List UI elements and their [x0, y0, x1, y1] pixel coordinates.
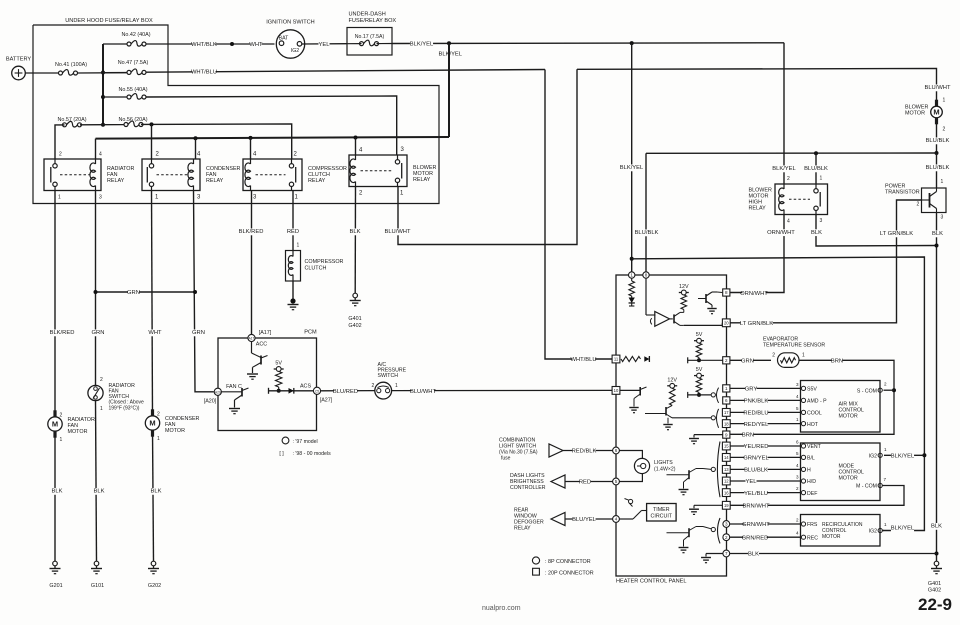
legend '97 model	[282, 437, 289, 444]
svg-text:BRN: BRN	[742, 433, 754, 439]
svg-text:COOL: COOL	[807, 411, 822, 417]
wire YEL/BLU pin16 to mode DEF	[730, 492, 800, 494]
svg-text:G401: G401	[348, 316, 361, 322]
svg-text:BLU/BLK: BLU/BLK	[744, 468, 768, 474]
wire WHT/BLU drop x=545 and into HCP pin11	[545, 70, 612, 360]
svg-text:UNDER-DASH: UNDER-DASH	[349, 12, 386, 18]
connector pin 4 (8P) BLU/YEL on HCP left	[613, 516, 620, 523]
wire radiator relay pin1 BLK/RED down to radiator fan motor	[54, 191, 56, 418]
wire condenser relay pin2 drop	[151, 124, 153, 159]
lamp LIGHTS (1.4Wx2) in HCP	[619, 451, 642, 459]
svg-text:3: 3	[725, 522, 728, 527]
label BLK/RED compressor	[239, 228, 262, 235]
connector pin 16 (20P) YEL/BLU	[722, 489, 730, 497]
svg-text:BLU/BLK: BLU/BLK	[926, 165, 950, 171]
connector pin 7 (8P) BLK to internal ground	[723, 550, 730, 557]
relay K4 BLOWER MOTOR RELAY	[349, 155, 407, 187]
svg-text:BLK: BLK	[151, 489, 162, 495]
wire radiator fan motor to ground G201 BLK	[54, 431, 56, 561]
svg-text:LT GRN/BLK: LT GRN/BLK	[880, 231, 913, 237]
svg-text:2: 2	[100, 377, 103, 383]
svg-text:4: 4	[615, 517, 618, 522]
motor M5 MODE CONTROL MOTOR box	[801, 443, 881, 501]
svg-text:2: 2	[60, 413, 63, 419]
connector C5 ACS output	[313, 387, 320, 394]
svg-text:CIRCUIT: CIRCUIT	[651, 514, 673, 520]
svg-text:nualpro.com: nualpro.com	[482, 605, 521, 612]
junction IG2 mode motor	[922, 453, 926, 457]
svg-text:RELAY: RELAY	[749, 206, 767, 212]
svg-text:BLU/WHT: BLU/WHT	[384, 229, 411, 235]
svg-text:2: 2	[796, 518, 799, 523]
svg-text:14: 14	[724, 455, 729, 460]
connector pin 2 (20P) GRN	[723, 357, 730, 364]
junction BLK/YEL rail to motors	[630, 257, 634, 261]
wire WHT/BLU pin11 resistor diode	[612, 355, 620, 363]
svg-text:G202: G202	[148, 583, 161, 589]
svg-text:BLU/WHT: BLU/WHT	[410, 389, 437, 395]
svg-text:MOTOR: MOTOR	[822, 534, 841, 540]
label YEL	[318, 41, 329, 48]
svg-text:BRN/WHT: BRN/WHT	[742, 504, 770, 510]
wire BLK pin7 to ground G401/G402	[730, 553, 937, 555]
svg-text:1: 1	[884, 447, 887, 452]
junction coil rail at condenser relay pin4	[194, 136, 198, 140]
wire to pin20 LT GRN/BLK	[684, 324, 723, 326]
wire GRN pin2sq to evaporator sensor	[730, 359, 771, 361]
svg-text:2: 2	[157, 412, 160, 418]
relay K2 CONDENSER FAN RELAY	[142, 159, 200, 191]
label GRN radiator	[92, 329, 103, 336]
splice dot on WHT/BLK wire	[230, 42, 234, 46]
svg-text:9: 9	[725, 432, 728, 437]
wire GRN/YEL pin14 to mode B/L	[730, 456, 800, 458]
svg-text:2: 2	[884, 382, 887, 387]
bracket for pins 3,2	[718, 518, 721, 543]
svg-text:MOTOR: MOTOR	[839, 476, 858, 482]
svg-text:2: 2	[372, 383, 375, 389]
relay K1 RADIATOR FAN RELAY	[44, 159, 101, 191]
comparator triangle in HCP	[655, 312, 670, 327]
svg-text:6: 6	[615, 448, 618, 453]
junction fuse56 wire to condenser relay pin2	[150, 122, 154, 126]
junction 5V No2 to pair line	[697, 393, 701, 397]
svg-text:TEMPERATURE SENSOR: TEMPERATURE SENSOR	[763, 343, 825, 349]
svg-text:GRN: GRN	[127, 290, 140, 296]
svg-text:1: 1	[157, 436, 160, 442]
svg-text:AMD - P: AMD - P	[807, 399, 827, 405]
resistor in PCM 5V pull-up	[276, 371, 282, 387]
wire battery to fuse No.41	[25, 72, 58, 74]
svg-text:LT GRN/BLK: LT GRN/BLK	[740, 321, 773, 327]
wire GRN/RED pin2c to recirc REC	[730, 536, 801, 538]
svg-text:6: 6	[796, 440, 799, 445]
svg-text:2: 2	[796, 486, 799, 491]
label WHT	[250, 42, 261, 49]
svg-text:RELAY: RELAY	[107, 178, 125, 184]
svg-text:199°F (93°C)): 199°F (93°C))	[109, 405, 140, 411]
svg-text:: '98 - 00 models: : '98 - 00 models	[293, 451, 332, 457]
svg-text:1: 1	[796, 417, 799, 422]
junction coil rail at compressor relay pin4	[249, 136, 253, 140]
svg-text:20: 20	[724, 321, 729, 326]
svg-text:10: 10	[614, 388, 619, 393]
wire BLK/YEL drop to blower-high relay pin2	[783, 43, 785, 184]
svg-text:12: 12	[724, 479, 729, 484]
wire BRN sensor to air mix S-COM net	[730, 360, 894, 434]
svg-text:2: 2	[917, 202, 920, 208]
wire BLU/BLK blower motor pin2 down to rail	[936, 121, 938, 153]
transistor Q8 in HCP mode driver	[667, 474, 690, 476]
svg-text:11: 11	[614, 357, 619, 362]
svg-text:[A20]: [A20]	[204, 399, 217, 405]
connector A17 on PCM	[248, 334, 255, 341]
svg-text:(1.4W×2): (1.4W×2)	[654, 467, 676, 473]
wire YEL pin12 to mode H/D	[730, 480, 800, 482]
wire ignition switch to under-dash fuse	[302, 43, 347, 45]
svg-text:VENT: VENT	[807, 444, 822, 450]
wire blower relay pin1 BLU/WHT down and right	[398, 69, 577, 244]
junction BLK at HCP pin7 wire	[935, 552, 939, 556]
svg-text:12V: 12V	[679, 284, 689, 290]
wire fuse42 to WHT/BLK label and ignition switch	[146, 43, 275, 45]
connector pin 18 (20P) RED/YEL	[722, 420, 730, 428]
svg-text:BATTERY: BATTERY	[6, 57, 32, 63]
svg-text:DEF: DEF	[807, 491, 817, 497]
svg-text:YEL/BLU: YEL/BLU	[744, 491, 768, 497]
svg-text:BLK/RED: BLK/RED	[50, 330, 75, 336]
connector pin 6c (8P) RED/BLK on HCP left	[613, 447, 620, 454]
svg-text:RELAY: RELAY	[206, 178, 224, 184]
wire BLU/BLK drop to HCP pin8	[645, 153, 647, 271]
svg-text:BLK/YEL: BLK/YEL	[772, 166, 796, 172]
module PCM box	[218, 338, 317, 431]
wire PNK/BLK pin6 to air mix AMD-P	[730, 399, 800, 401]
svg-text:5V: 5V	[275, 361, 282, 367]
svg-text:7: 7	[884, 477, 887, 482]
svg-text:1: 1	[725, 386, 728, 391]
motor M4 AIR MIX CONTROL MOTOR box	[801, 381, 881, 433]
under-hood fuse/relay box outline	[33, 25, 439, 204]
svg-text:REC: REC	[807, 535, 818, 541]
label ORN/WHT at HCP pin8sq	[742, 290, 765, 297]
svg-text:HEATER CONTROL PANEL: HEATER CONTROL PANEL	[616, 579, 686, 585]
svg-text:M: M	[149, 419, 155, 428]
svg-text:1: 1	[58, 195, 61, 201]
wire fuse41 to fuse47 row	[103, 72, 127, 74]
legend 8P CONNECTOR	[532, 557, 539, 564]
wire GRN/WHT pin3c to recirc FRS	[730, 523, 801, 525]
svg-text:4: 4	[796, 531, 799, 536]
svg-text:7: 7	[725, 551, 728, 556]
svg-text:FRS: FRS	[807, 522, 818, 528]
svg-text:BLK/YEL: BLK/YEL	[410, 41, 434, 47]
svg-text:1: 1	[884, 522, 887, 527]
junction coil rail at blower relay pin4	[354, 136, 358, 140]
svg-text:18: 18	[724, 421, 729, 426]
legend 20P CONNECTOR	[533, 568, 540, 575]
svg-text:8: 8	[645, 273, 648, 278]
motor M3 BLOWER MOTOR	[935, 100, 938, 108]
svg-text:4: 4	[796, 394, 799, 399]
svg-text:SWITCH: SWITCH	[378, 373, 399, 379]
svg-text:MOTOR: MOTOR	[165, 428, 185, 434]
wire condenser relay pin3 GRN down to PCM FAN C	[194, 191, 214, 392]
svg-text:22-9: 22-9	[918, 595, 952, 614]
wire compressor relay pin1 RED down to compressor clutch	[292, 191, 294, 251]
wire GRN link bus between fan wires	[96, 291, 196, 293]
label BLK right column	[931, 523, 942, 530]
wire condenser fan motor to ground G202 BLK	[153, 430, 154, 561]
svg-text:WHT/BLU: WHT/BLU	[570, 357, 596, 363]
svg-text:C5: C5	[315, 390, 319, 394]
svg-text:WHT: WHT	[249, 42, 263, 48]
svg-text:BLK/YEL: BLK/YEL	[439, 52, 463, 58]
svg-text:TIMER: TIMER	[653, 507, 670, 513]
svg-text:2: 2	[787, 176, 790, 182]
label BRN at pin9	[742, 432, 753, 439]
wire RED/BLK to pin6	[563, 450, 613, 452]
pin IG2 of mode motor	[878, 453, 882, 457]
svg-text:GRN/RED: GRN/RED	[742, 535, 769, 541]
svg-text:GRN: GRN	[741, 359, 754, 365]
connector pin 20 (20P) LT GRN/BLK	[722, 319, 730, 327]
module HEATER CONTROL PANEL box	[616, 275, 727, 576]
svg-text:BLK/YEL: BLK/YEL	[891, 526, 915, 532]
svg-text:5: 5	[615, 479, 618, 484]
svg-text:1: 1	[941, 179, 944, 185]
svg-text:H: H	[807, 468, 811, 474]
wire radiator relay pin4 drop	[95, 139, 97, 159]
svg-text:MOTOR: MOTOR	[905, 111, 925, 117]
wire WHT/BLU from fuse47 right to corner x=545	[146, 70, 545, 73]
wire recirc IG2 stub to BLK/YEL riser	[882, 530, 884, 532]
wire S-COM to junction	[884, 389, 895, 391]
svg-text:GRN/YEL: GRN/YEL	[743, 456, 769, 462]
svg-text:B/L: B/L	[807, 456, 815, 462]
svg-text:BLU/RED: BLU/RED	[333, 389, 358, 395]
svg-text:BLK: BLK	[94, 489, 105, 495]
svg-text:M: M	[933, 108, 939, 117]
label BLK/YEL	[410, 41, 433, 48]
svg-text:ORN/WHT: ORN/WHT	[767, 230, 795, 236]
ground at compressor clutch (solid dot)	[290, 298, 295, 303]
svg-text:5V: 5V	[696, 367, 703, 373]
svg-text:: 8P CONNECTOR: : 8P CONNECTOR	[545, 559, 591, 565]
svg-text:BLK: BLK	[350, 229, 361, 235]
wire condenser relay pin1 WHT down to condenser fan motor	[152, 191, 153, 417]
svg-text:IG2: IG2	[291, 48, 299, 54]
junction fuse55 row at trunk	[101, 95, 105, 99]
ground G202	[151, 561, 156, 566]
svg-text:4: 4	[99, 152, 102, 158]
svg-text:RED/BLK: RED/BLK	[572, 449, 597, 455]
wire GRY pin1sq to air mix S5V	[730, 387, 800, 389]
connector pin 3 (8P) GRN/WHT	[723, 521, 730, 528]
svg-text:19: 19	[724, 503, 729, 508]
svg-text:A17: A17	[249, 337, 255, 341]
svg-text:YEL/RED: YEL/RED	[744, 444, 769, 450]
svg-text:: 20P CONNECTOR: : 20P CONNECTOR	[545, 571, 594, 577]
svg-text:3: 3	[820, 218, 823, 224]
svg-text:3: 3	[99, 195, 102, 201]
svg-text:RED/YEL: RED/YEL	[744, 422, 770, 428]
svg-text:5: 5	[796, 451, 799, 456]
svg-text:YEL: YEL	[319, 42, 331, 48]
svg-text:BRN: BRN	[831, 359, 843, 365]
wire to pins 17/18 pair circle	[672, 417, 711, 419]
svg-text:12V: 12V	[667, 377, 677, 383]
svg-text:RED: RED	[287, 229, 299, 235]
wire condenser relay pin4 drop	[195, 138, 197, 159]
svg-text:5V: 5V	[696, 332, 703, 338]
connector pin 15 (20P) YEL/RED	[722, 442, 730, 450]
wire pin8 into comparator	[645, 278, 647, 315]
connector pin 5 (8P) RED on HCP left	[613, 478, 620, 485]
switch and TIMER CIRCUIT in HCP	[619, 518, 633, 520]
wire trunk vertical from fuse42 row down to fuse56/57 row	[102, 44, 104, 125]
svg-text:BLK/YEL: BLK/YEL	[620, 165, 644, 171]
svg-text:BLU/BLK: BLU/BLK	[804, 166, 828, 172]
svg-text:1: 1	[297, 243, 300, 249]
connector pin 1sq (20P) GRY	[723, 385, 730, 392]
wire BLU/BLK pin13 to mode H	[730, 468, 800, 470]
junction trunk at fuse56/57 row	[101, 123, 105, 127]
svg-text:GRN/WHT: GRN/WHT	[742, 522, 770, 528]
svg-text:S - COM: S - COM	[857, 388, 877, 394]
svg-text:A20: A20	[215, 391, 221, 395]
connector pin 12 (20P) YEL	[722, 477, 730, 485]
svg-text:[A27]: [A27]	[320, 398, 333, 404]
svg-text:GRN: GRN	[192, 330, 205, 336]
resistor below pin1 in HCP	[631, 278, 633, 281]
svg-text:No.42 (40A): No.42 (40A)	[121, 32, 150, 38]
wire BLU/WHT riser to blower motor pin1	[577, 69, 937, 104]
diode D2 down arrow in HCP	[631, 296, 633, 298]
transistor Q4 in HCP upper	[670, 318, 673, 320]
wire fuse55 to blower motor relay pin3	[146, 96, 397, 155]
wire compressor relay pin4 drop	[250, 138, 252, 159]
svg-text:1: 1	[802, 353, 805, 359]
connector pin 14 (20P) GRN/YEL	[722, 454, 730, 462]
svg-text:CONTROLLER: CONTROLLER	[510, 485, 546, 491]
svg-text:ACC: ACC	[256, 342, 267, 348]
svg-text:No.41 (100A): No.41 (100A)	[55, 62, 87, 68]
svg-text:WHT/BLK: WHT/BLK	[191, 42, 217, 48]
svg-text:BLU/BLK: BLU/BLK	[926, 138, 950, 144]
wire YEL/RED pin15 to mode VENT	[730, 445, 800, 447]
svg-text:RELAY: RELAY	[413, 177, 431, 183]
svg-text:RELAY: RELAY	[308, 178, 326, 184]
svg-text:2: 2	[725, 358, 728, 363]
compressor clutch coil COMPRESSOR CLUTCH	[286, 251, 301, 282]
motor M1 RADIATOR FAN MOTOR	[53, 410, 56, 418]
svg-text:UNDER HOOD FUSE/RELAY BOX: UNDER HOOD FUSE/RELAY BOX	[65, 18, 153, 24]
wire bar to pin1/6 pair circle	[687, 392, 689, 398]
wire BLK/YEL from fuse17 to blower motor high relay pin2 with branches	[392, 42, 784, 45]
label WHT/BLU	[192, 69, 215, 76]
connector pin 13 (20P) BLU/BLK	[722, 466, 730, 474]
wire fuse57 to radiator fan relay pin2	[55, 125, 65, 159]
svg-text:WHT: WHT	[148, 330, 162, 336]
wire radiator relay pin3 GRN down to radiator fan switch	[95, 191, 97, 386]
svg-text:ORN/WHT: ORN/WHT	[740, 291, 768, 297]
svg-text:BLU/YEL: BLU/YEL	[572, 517, 597, 523]
transistor Q5 in HCP top-right	[705, 294, 707, 303]
junction BLK/YEL branch down to relay coil rail	[447, 41, 451, 45]
svg-text:TRANSISTOR: TRANSISTOR	[885, 190, 920, 196]
wire BLK/YEL down from junction to coil rail	[448, 43, 450, 137]
svg-text:G201: G201	[49, 583, 62, 589]
relay K3 COMPRESSOR CLUTCH RELAY	[243, 159, 302, 191]
svg-text:2: 2	[772, 353, 775, 359]
svg-text:3: 3	[796, 475, 799, 480]
svg-text:RELAY: RELAY	[514, 526, 531, 532]
bracket for mode pins 15-16	[717, 442, 720, 498]
wire M-COM loop to BRN/WHT pin19	[730, 486, 904, 506]
label GRN condenser	[193, 329, 204, 336]
label BLK/RED	[50, 329, 73, 336]
connector pin 9 (20P) BRN to internal ground	[723, 431, 730, 438]
junction BLU/BLK rail at blower-high relay pin1	[814, 151, 818, 155]
svg-text:PCM: PCM	[304, 330, 317, 336]
ground G201	[53, 561, 58, 566]
junction 5V resistor to ACS line	[277, 389, 281, 393]
svg-text:1: 1	[60, 437, 63, 443]
svg-text:IGNITION SWITCH: IGNITION SWITCH	[266, 20, 314, 26]
wire BLK/YEL drop from main line to HCP pin1 and IG2 rail	[631, 43, 633, 271]
svg-text:RED/BLU: RED/BLU	[743, 411, 768, 417]
svg-text:M: M	[52, 420, 58, 429]
fuse F42 No.42 (40A)	[103, 43, 127, 45]
svg-text:LIGHTS: LIGHTS	[654, 460, 673, 466]
svg-text:G402: G402	[928, 588, 941, 594]
svg-text:BLU/BLK: BLU/BLK	[635, 230, 659, 236]
pin M-COM of mode motor	[878, 483, 882, 487]
svg-text:M - COM: M - COM	[856, 484, 877, 490]
svg-text:BAT: BAT	[279, 35, 290, 41]
svg-text:MOTOR: MOTOR	[839, 414, 858, 420]
label WHT/BLK	[192, 42, 215, 49]
wire ORN/WHT blower-high pin4 to HCP pin8sq	[730, 215, 784, 293]
svg-text:S5V: S5V	[807, 387, 817, 393]
svg-text:No.17 (7.5A): No.17 (7.5A)	[355, 34, 385, 40]
connector A20 FAN C on PCM	[214, 388, 221, 395]
svg-text:fuse: fuse	[501, 456, 511, 462]
svg-text:ACS: ACS	[300, 383, 311, 389]
svg-text:1: 1	[395, 383, 398, 389]
svg-text:13: 13	[724, 467, 729, 472]
svg-text:BLK/RED: BLK/RED	[239, 229, 264, 235]
wire RED/BLU pin17 to air mix COOL	[730, 411, 800, 413]
junction GRN bus right	[193, 290, 197, 294]
svg-text:4: 4	[787, 219, 790, 225]
connector pin 8sq (20P) ORN/WHT	[723, 289, 730, 296]
svg-text:BLK: BLK	[811, 230, 822, 236]
motor M2 CONDENSER FAN MOTOR	[151, 409, 154, 417]
junction GRN bus left	[94, 290, 98, 294]
svg-text:1: 1	[630, 273, 633, 278]
wire BLU/YEL to pin4	[565, 518, 613, 520]
svg-text:No.47 (7.5A): No.47 (7.5A)	[118, 60, 149, 66]
junction S-COM at BRN riser	[892, 388, 896, 392]
connector pin 2c (8P) GRN/RED	[723, 534, 730, 541]
motor M6 RECIRCULATION CONTROL MOTOR box	[801, 515, 881, 547]
svg-text:WHT/BLU: WHT/BLU	[191, 70, 217, 76]
svg-text:[A17]: [A17]	[259, 330, 272, 336]
svg-text:6: 6	[725, 398, 728, 403]
transistor Q1 ACC driver in PCM	[251, 342, 253, 353]
